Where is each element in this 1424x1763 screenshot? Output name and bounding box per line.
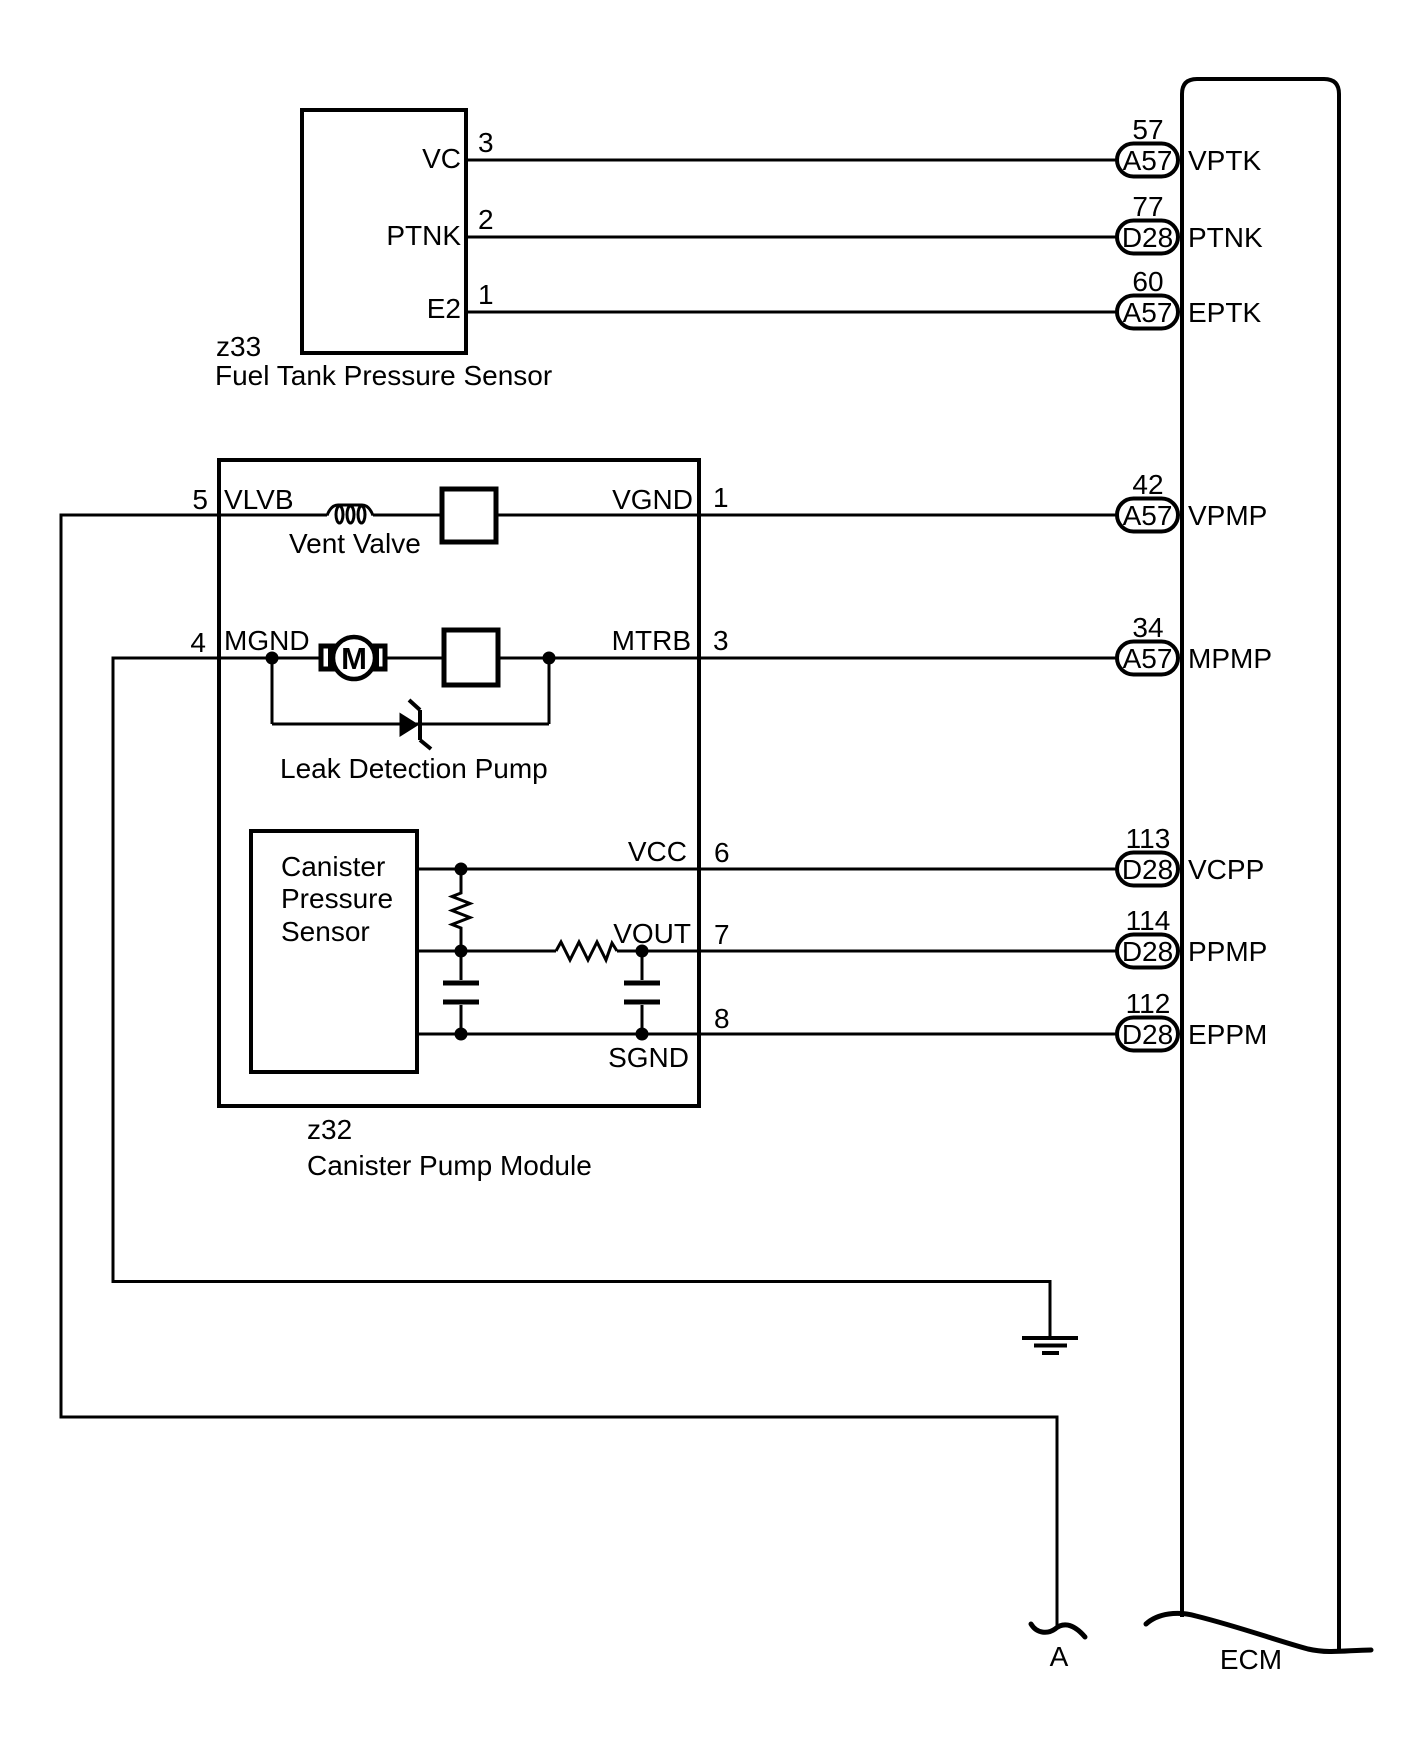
svg-text:z33: z33	[216, 331, 261, 362]
svg-text:VOUT: VOUT	[613, 918, 691, 949]
ECM connector D28 pin 113 oval	[1117, 823, 1178, 886]
svg-text:M: M	[341, 641, 367, 676]
wire PTNK pin2 to ECM D28-77	[466, 236, 1118, 239]
svg-text:5: 5	[192, 484, 208, 515]
capacitor C1 bottom plate	[443, 1000, 479, 1005]
svg-text:1: 1	[478, 279, 494, 310]
svg-text:ECM: ECM	[1220, 1644, 1282, 1675]
svg-text:MPMP: MPMP	[1188, 643, 1272, 674]
junction dot VCC node	[455, 863, 468, 876]
junction dot SGND right node	[636, 1028, 649, 1041]
zener diode D1 triangle	[400, 713, 420, 738]
svg-text:2: 2	[478, 204, 494, 235]
junction dot right MTRB	[543, 652, 556, 665]
motor M1 left bracket	[330, 650, 337, 666]
motor M1 right bracket	[369, 650, 377, 666]
capacitor C2 bottom lead	[641, 1005, 644, 1034]
leak detection pump body square	[444, 630, 498, 685]
svg-text:60: 60	[1132, 266, 1163, 297]
wire E2 pin1 to ECM A57-60	[466, 311, 1118, 314]
wire VLVB internal left segment	[219, 514, 327, 517]
svg-text:7: 7	[714, 919, 730, 950]
vent valve body square	[442, 489, 496, 542]
wire motor to pump body	[385, 657, 444, 660]
wire VC pin3 to ECM A57-57	[466, 159, 1118, 162]
svg-text:3: 3	[713, 625, 729, 656]
connector A break squiggle	[1031, 1624, 1085, 1637]
ECM connector A57 pin 57 oval	[1117, 114, 1178, 177]
svg-text:Fuel Tank Pressure Sensor: Fuel Tank Pressure Sensor	[215, 360, 552, 391]
svg-text:PPMP: PPMP	[1188, 936, 1267, 967]
ECM break squiggle	[1146, 1613, 1371, 1651]
wire VOUT pin7 to ECM D28-114	[617, 950, 1118, 953]
component z33 Fuel Tank Pressure Sensor box	[302, 110, 466, 353]
svg-text:Sensor: Sensor	[281, 916, 370, 947]
wire bypass horizontal	[272, 723, 549, 726]
junction dot left MGND	[266, 652, 279, 665]
capacitor C2 bottom plate	[624, 1000, 660, 1005]
zener diode D1 bottom hook	[420, 740, 431, 749]
resistor R1 vertical	[452, 869, 470, 951]
svg-text:A57: A57	[1123, 297, 1173, 328]
capacitor C1 top plate	[443, 981, 479, 986]
svg-text:A: A	[1050, 1641, 1069, 1672]
ECM body outline	[1182, 79, 1339, 1651]
svg-text:VC: VC	[422, 143, 461, 174]
svg-text:VPMP: VPMP	[1188, 500, 1267, 531]
junction dot VOUT right node	[636, 945, 649, 958]
wire VOUT sensor to resistor R2	[417, 950, 556, 953]
svg-text:D28: D28	[1122, 854, 1173, 885]
junction dot VOUT left node	[455, 945, 468, 958]
wire coil to vent valve body	[373, 514, 442, 517]
inductor vent valve coil L1	[327, 505, 373, 523]
svg-text:4: 4	[190, 627, 206, 658]
svg-text:D28: D28	[1122, 1019, 1173, 1050]
junction dot SGND left node	[455, 1028, 468, 1041]
svg-text:8: 8	[714, 1003, 730, 1034]
svg-text:SGND: SGND	[608, 1042, 689, 1073]
svg-text:VPTK: VPTK	[1188, 145, 1261, 176]
svg-text:VCPP: VCPP	[1188, 854, 1264, 885]
svg-text:EPPM: EPPM	[1188, 1019, 1267, 1050]
zener diode D1 top hook	[409, 700, 420, 710]
capacitor C1 bottom lead	[460, 1005, 463, 1034]
wire VLVB external run to connector A	[61, 515, 1057, 1628]
svg-text:EPTK: EPTK	[1188, 297, 1261, 328]
component z32 Canister Pump Module box	[219, 460, 699, 1106]
wire bypass right vertical	[548, 658, 551, 724]
wire MGND external run to ground	[113, 658, 1050, 1336]
svg-text:A57: A57	[1123, 500, 1173, 531]
svg-text:6: 6	[714, 837, 730, 868]
wire MGND internal left segment	[219, 657, 321, 660]
svg-text:112: 112	[1126, 988, 1171, 1019]
svg-text:42: 42	[1132, 469, 1163, 500]
ECM connector A57 pin 42 oval	[1117, 469, 1178, 532]
svg-text:34: 34	[1132, 612, 1163, 643]
motor M1 terminal frame	[321, 646, 385, 669]
svg-text:113: 113	[1126, 823, 1171, 854]
svg-text:A57: A57	[1123, 145, 1173, 176]
svg-text:z32: z32	[307, 1114, 352, 1145]
svg-text:Canister: Canister	[281, 851, 385, 882]
svg-text:Leak Detection Pump: Leak Detection Pump	[280, 753, 548, 784]
wire bypass left vertical	[271, 658, 274, 724]
svg-text:VLVB: VLVB	[224, 484, 294, 515]
ground symbol	[1022, 1338, 1078, 1353]
motor M1 circle	[333, 637, 375, 679]
wire VCC pin6 to ECM D28-113	[417, 868, 1118, 871]
svg-text:E2: E2	[427, 293, 461, 324]
svg-text:D28: D28	[1122, 222, 1173, 253]
svg-text:1: 1	[713, 482, 729, 513]
svg-text:77: 77	[1132, 191, 1163, 222]
svg-text:PTNK: PTNK	[386, 220, 461, 251]
resistor R2 horizontal	[556, 942, 617, 960]
svg-text:D28: D28	[1122, 936, 1173, 967]
wire MTRB pin3 to ECM A57-34	[498, 657, 1118, 660]
zener diode D1 cathode bar	[418, 710, 422, 740]
svg-text:VGND: VGND	[612, 484, 693, 515]
wire SGND pin8 to ECM D28-112	[417, 1033, 1118, 1036]
svg-text:PTNK: PTNK	[1188, 222, 1263, 253]
capacitor C1 top lead	[460, 951, 463, 980]
wire VGND pin1 to ECM A57-42	[496, 514, 1118, 517]
svg-text:Pressure: Pressure	[281, 883, 393, 914]
svg-text:VCC: VCC	[628, 836, 687, 867]
svg-text:114: 114	[1126, 905, 1171, 936]
component Canister Pressure Sensor box	[251, 831, 417, 1072]
ECM connector A57 pin 60 oval	[1117, 266, 1178, 329]
svg-text:MGND: MGND	[224, 625, 310, 656]
svg-text:A57: A57	[1123, 643, 1173, 674]
svg-text:Vent Valve: Vent Valve	[289, 528, 421, 559]
ECM connector A57 pin 34 oval	[1117, 612, 1178, 675]
capacitor C2 top plate	[624, 981, 660, 986]
ECM connector D28 pin 77 oval	[1117, 191, 1178, 254]
ECM connector D28 pin 114 oval	[1117, 905, 1178, 968]
capacitor C2 top lead	[641, 951, 644, 980]
svg-text:57: 57	[1132, 114, 1163, 145]
svg-text:3: 3	[478, 127, 494, 158]
svg-text:MTRB: MTRB	[612, 625, 691, 656]
svg-text:Canister Pump Module: Canister Pump Module	[307, 1150, 592, 1181]
ECM connector D28 pin 112 oval	[1117, 988, 1178, 1051]
